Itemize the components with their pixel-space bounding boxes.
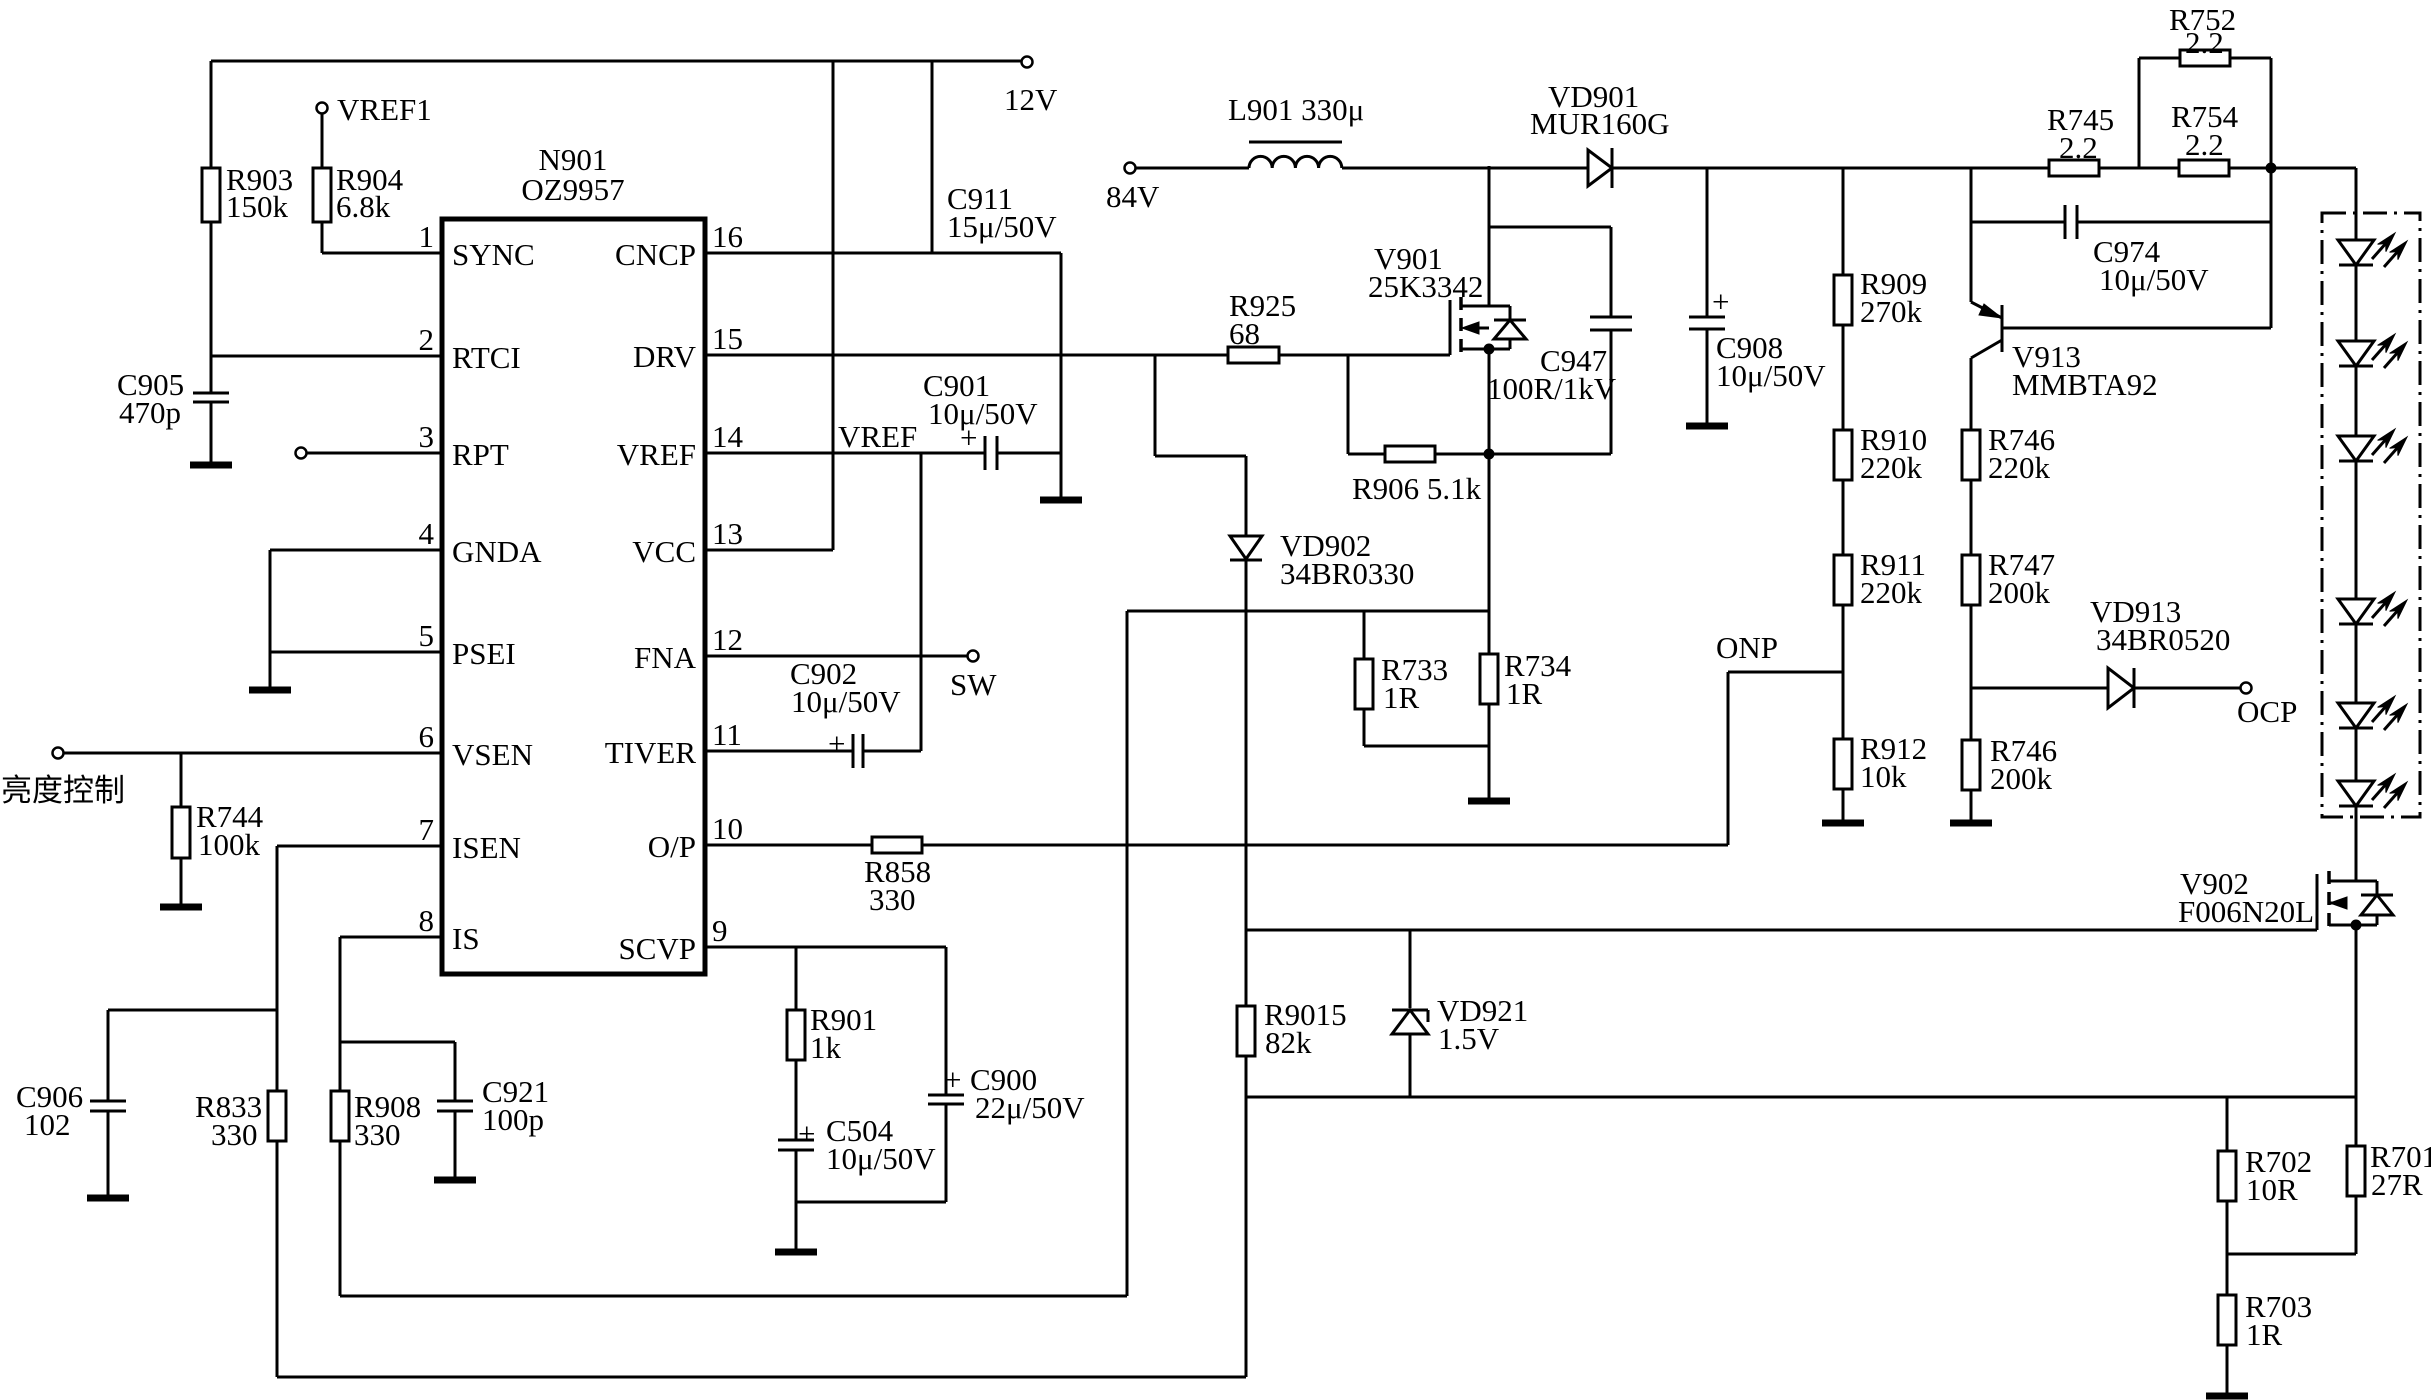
- svg-text:150k: 150k: [226, 189, 289, 224]
- LED D3: [2338, 429, 2407, 463]
- svg-text:7: 7: [419, 812, 435, 847]
- resistor R9015: [1237, 930, 1347, 1097]
- wire pin7 ISEN: [277, 846, 442, 1091]
- svg-text:1k: 1k: [810, 1030, 842, 1065]
- wire DRV junction drop: [1155, 355, 1246, 456]
- wire pin10 O/P: [705, 844, 872, 847]
- resistor R912: [1834, 605, 1927, 821]
- svg-text:DRV: DRV: [633, 339, 697, 374]
- inductor L901 330μ: [1228, 92, 1364, 168]
- capacitor C905: [117, 356, 229, 463]
- wire pin12 FNA: [705, 655, 967, 658]
- resistor R702: [2218, 1097, 2312, 1254]
- svg-text:F006N20L: F006N20L: [2178, 894, 2314, 929]
- LED D6: [2338, 774, 2407, 808]
- capacitor C901: [923, 368, 1038, 470]
- resistor R906: [1348, 355, 1489, 506]
- wire pin5 PSEI: [270, 651, 442, 654]
- wire IS sense return: [340, 611, 1127, 1296]
- svg-text:VREF: VREF: [617, 437, 696, 472]
- terminal 12V: [1004, 57, 1058, 118]
- resistor R746 lower: [1962, 733, 2057, 821]
- svg-text:6: 6: [419, 719, 435, 754]
- resistor R858: [864, 837, 931, 917]
- resistor R734: [1480, 611, 1572, 746]
- wire LED string: [2355, 168, 2358, 881]
- svg-text:PSEI: PSEI: [452, 636, 516, 671]
- diode VD921 zener 1.5V: [1392, 930, 1528, 1097]
- wire C921 link: [340, 1041, 455, 1044]
- svg-text:GNDA: GNDA: [452, 534, 542, 569]
- label 亮度控制: [1, 773, 125, 808]
- svg-text:亮度控制: 亮度控制: [1, 773, 125, 808]
- resistor R911: [1834, 480, 1926, 610]
- capacitor C911 label: [947, 181, 1057, 244]
- svg-text:220k: 220k: [1988, 450, 2051, 485]
- resistor R746: [1962, 422, 2055, 485]
- svg-text:+: +: [798, 1116, 815, 1151]
- svg-text:200k: 200k: [1990, 761, 2053, 796]
- wire pin11 TIVER: [705, 750, 853, 753]
- svg-text:14: 14: [712, 419, 744, 454]
- svg-text:10μ/50V: 10μ/50V: [928, 396, 1038, 431]
- ground GNDA: [249, 687, 291, 694]
- terminal SW: [950, 651, 997, 703]
- IC N901 OZ9957 body: [442, 142, 705, 974]
- resistor R733: [1355, 611, 1448, 746]
- diode VD901 MUR160G: [1530, 79, 1670, 188]
- svg-text:IS: IS: [452, 921, 480, 956]
- capacitor C906: [16, 1010, 126, 1196]
- svg-text:VREF1: VREF1: [337, 92, 432, 127]
- ground C905: [190, 462, 232, 469]
- wire 12V top rail: [211, 60, 1021, 63]
- ground C908: [1686, 423, 1728, 430]
- wire rail R745 to R754: [2099, 167, 2179, 170]
- wire ISEN sense return: [277, 1376, 1246, 1379]
- svg-text:34BR0330: 34BR0330: [1280, 556, 1414, 591]
- resistor R904: [313, 114, 404, 253]
- wire C902 riser: [863, 453, 921, 751]
- capacitor C902: [790, 656, 901, 768]
- svg-text:330: 330: [211, 1117, 258, 1152]
- svg-text:82k: 82k: [1265, 1025, 1312, 1060]
- svg-text:102: 102: [24, 1107, 71, 1142]
- wire pin16 CNCP: [705, 253, 1061, 498]
- resistor R909: [1834, 168, 1927, 329]
- svg-text:1R: 1R: [1383, 680, 1420, 715]
- wire C974 base drop: [2270, 168, 2273, 328]
- resistor R745: [2047, 102, 2114, 176]
- svg-text:5: 5: [419, 618, 435, 653]
- wire R733 R734 top rail: [1127, 610, 1489, 613]
- wire pin1 SYNC: [322, 252, 442, 255]
- svg-text:L901 330μ: L901 330μ: [1228, 92, 1364, 127]
- svg-text:MUR160G: MUR160G: [1530, 106, 1670, 141]
- svg-text:+: +: [944, 1062, 961, 1097]
- svg-text:SYNC: SYNC: [452, 237, 535, 272]
- ground SCVP: [775, 1249, 817, 1256]
- svg-text:15μ/50V: 15μ/50V: [947, 209, 1057, 244]
- svg-text:330: 330: [869, 882, 916, 917]
- svg-text:22μ/50V: 22μ/50V: [975, 1090, 1085, 1125]
- svg-text:2: 2: [419, 322, 435, 357]
- svg-text:1R: 1R: [2246, 1317, 2283, 1352]
- wire L901 to VD901: [1342, 167, 1588, 170]
- wire V902 source down: [2355, 925, 2358, 1146]
- svg-text:12: 12: [712, 622, 743, 657]
- ground R703: [2206, 1393, 2248, 1400]
- resistor R903: [202, 61, 293, 356]
- wire VCC riser: [705, 61, 833, 550]
- svg-text:1R: 1R: [1506, 676, 1543, 711]
- svg-text:2.2: 2.2: [2185, 127, 2224, 162]
- svg-text:OZ9957: OZ9957: [521, 172, 624, 207]
- svg-text:12V: 12V: [1004, 82, 1058, 117]
- wire O/P to ONP: [922, 844, 1728, 847]
- capacitor C908: [1689, 168, 1826, 424]
- svg-text:270k: 270k: [1860, 294, 1923, 329]
- svg-text:ONP: ONP: [1716, 630, 1778, 665]
- svg-text:220k: 220k: [1860, 450, 1923, 485]
- ground R746 lower: [1950, 820, 1992, 827]
- svg-text:9: 9: [712, 913, 728, 948]
- svg-text:470p: 470p: [119, 395, 181, 430]
- label VREF: [838, 419, 917, 454]
- svg-text:100R/1kV: 100R/1kV: [1487, 371, 1617, 406]
- wire sense rail: [1246, 1096, 2355, 1099]
- svg-text:330: 330: [354, 1117, 401, 1152]
- terminal RPT pin3: [296, 448, 443, 459]
- IC N901 pin labels: [419, 219, 744, 966]
- resistor R744: [172, 753, 264, 905]
- LED D5: [2338, 696, 2407, 730]
- node V902 source junction: [2351, 920, 2361, 930]
- svg-text:RTCI: RTCI: [452, 340, 521, 375]
- resistor R910: [1834, 325, 1927, 485]
- svg-text:+: +: [828, 726, 845, 761]
- wire pin9 SCVP: [705, 946, 946, 949]
- resistor R754: [2171, 99, 2239, 176]
- wire R733 R734 bottom: [1364, 746, 1489, 799]
- ground C906: [87, 1195, 129, 1202]
- svg-text:16: 16: [712, 219, 743, 254]
- resistor R901: [787, 947, 877, 1140]
- wire C906 link: [108, 1009, 277, 1012]
- svg-text:13: 13: [712, 516, 743, 551]
- svg-text:1: 1: [419, 219, 435, 254]
- label ONP: [1716, 630, 1778, 665]
- wire 84V to L901: [1136, 167, 1249, 170]
- svg-text:2.2: 2.2: [2059, 130, 2098, 165]
- resistor R703: [2218, 1254, 2312, 1394]
- diode VD902 34BR0330: [1230, 456, 1414, 930]
- svg-text:2.2: 2.2: [2185, 25, 2224, 60]
- svg-text:220k: 220k: [1860, 575, 1923, 610]
- svg-text:10R: 10R: [2246, 1172, 2298, 1207]
- resistor R908: [331, 1089, 421, 1296]
- svg-text:4: 4: [419, 516, 435, 551]
- LED chain outline box: [2322, 213, 2420, 817]
- LED D2: [2338, 334, 2407, 368]
- resistor R752: [2139, 2, 2271, 168]
- wire sense drop to bottom: [1245, 1097, 1248, 1377]
- svg-text:34BR0520: 34BR0520: [2096, 622, 2230, 657]
- svg-text:VCC: VCC: [632, 534, 696, 569]
- svg-text:RPT: RPT: [452, 437, 509, 472]
- svg-text:200k: 200k: [1988, 575, 2051, 610]
- wire V902 gate rail: [1246, 929, 2317, 932]
- svg-text:68: 68: [1229, 316, 1260, 351]
- svg-text:100k: 100k: [198, 827, 261, 862]
- svg-text:TIVER: TIVER: [605, 735, 697, 770]
- svg-text:ISEN: ISEN: [452, 830, 521, 865]
- resistor R925: [1228, 288, 1296, 363]
- wire R701 R702 bottom: [2227, 1253, 2356, 1256]
- ground R912: [1822, 820, 1864, 827]
- svg-text:11: 11: [712, 717, 742, 752]
- wire SCVP bottom: [796, 1202, 946, 1250]
- svg-text:6.8k: 6.8k: [336, 189, 391, 224]
- svg-text:10μ/50V: 10μ/50V: [1716, 358, 1826, 393]
- svg-text:SW: SW: [950, 667, 997, 702]
- wire DRV to gate: [1279, 354, 1450, 357]
- wire pin15 DRV: [705, 354, 1228, 357]
- capacitor C921: [437, 1042, 549, 1178]
- terminal VREF1: [317, 92, 432, 127]
- svg-text:8: 8: [419, 903, 435, 938]
- transistor V902 F006N20L MOSFET: [2178, 866, 2393, 931]
- wire pin8 IS: [340, 937, 442, 1091]
- svg-text:1.5V: 1.5V: [1438, 1021, 1500, 1056]
- wire pin14 VREF: [705, 452, 985, 455]
- wire rail to LED chain: [2229, 167, 2356, 170]
- svg-text:MMBTA92: MMBTA92: [2012, 367, 2158, 402]
- svg-text:84V: 84V: [1106, 179, 1160, 214]
- transistor V901 25K3342 MOSFET: [1368, 166, 1526, 611]
- svg-text:CNCP: CNCP: [615, 237, 696, 272]
- svg-text:R906 5.1k: R906 5.1k: [1352, 471, 1482, 506]
- svg-text:VREF: VREF: [838, 419, 917, 454]
- capacitor C947: [1487, 227, 1632, 454]
- svg-text:15: 15: [712, 321, 743, 356]
- svg-text:VSEN: VSEN: [452, 737, 533, 772]
- svg-text:+: +: [1712, 284, 1729, 319]
- wire rail VD901 to R745: [1612, 167, 2049, 170]
- LED D1: [2338, 233, 2407, 267]
- svg-text:25K3342: 25K3342: [1368, 269, 1483, 304]
- svg-text:10μ/50V: 10μ/50V: [2099, 262, 2209, 297]
- resistor R747: [1962, 480, 2055, 740]
- capacitor C504: [778, 1113, 936, 1202]
- transistor V913 MMBTA92: [1971, 168, 2271, 430]
- ground C921: [434, 1177, 476, 1184]
- svg-text:10μ/50V: 10μ/50V: [791, 684, 901, 719]
- wire C911 branch: [931, 61, 934, 253]
- svg-text:100p: 100p: [482, 1102, 544, 1137]
- node V901 source junction: [1484, 344, 1494, 354]
- capacitor C900: [928, 947, 1085, 1202]
- svg-text:27R: 27R: [2371, 1167, 2423, 1202]
- terminal VSEN brightness: [53, 748, 443, 759]
- svg-text:3: 3: [419, 419, 435, 454]
- resistor R833: [195, 1089, 286, 1377]
- svg-text:10: 10: [712, 811, 743, 846]
- terminal OCP: [2237, 683, 2297, 730]
- diode VD913 34BR0520: [1971, 594, 2240, 708]
- node rail junction: [2266, 163, 2276, 173]
- ground CNCP: [1040, 497, 1082, 504]
- svg-text:10k: 10k: [1860, 759, 1907, 794]
- node R906-source junction: [1484, 449, 1494, 459]
- ground R744: [160, 904, 202, 911]
- capacitor C974: [1971, 205, 2271, 297]
- svg-text:SCVP: SCVP: [618, 931, 696, 966]
- wire ONP riser: [1728, 672, 1843, 845]
- svg-text:10μ/50V: 10μ/50V: [826, 1141, 936, 1176]
- ground R734: [1468, 798, 1510, 805]
- resistor R701: [2347, 1139, 2431, 1254]
- terminal 84V: [1106, 163, 1160, 215]
- svg-text:OCP: OCP: [2237, 694, 2297, 729]
- wire pin4 GNDA: [270, 550, 442, 688]
- LED D4: [2338, 592, 2407, 626]
- wire C901 to CNCP drop: [997, 452, 1061, 455]
- svg-text:FNA: FNA: [634, 640, 697, 675]
- svg-text:O/P: O/P: [648, 829, 696, 864]
- wire pin2 RTCI: [211, 355, 442, 358]
